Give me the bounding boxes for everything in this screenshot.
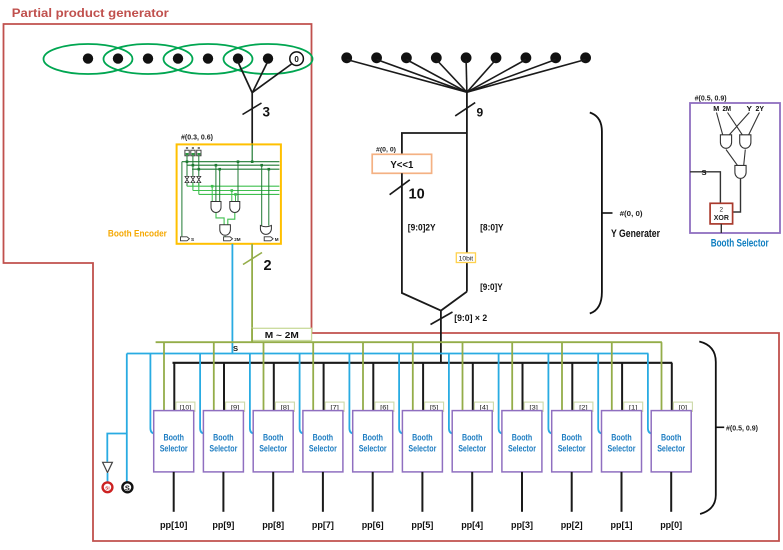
- wire: 9-bit Y bus: [466, 92, 468, 291]
- wire: black tap to selector [6]: [372, 363, 374, 411]
- inverter: [103, 462, 113, 472]
- pin labels M 2M Y 2Y: [713, 104, 764, 113]
- Booth Selector box [4]: [452, 411, 492, 472]
- svg-text:S!: S!: [105, 485, 110, 490]
- svg-text:Booth: Booth: [313, 432, 334, 443]
- selector AND gate right: [740, 135, 751, 149]
- wire: pp[5] output: [421, 472, 423, 512]
- fan wires to node 9: [347, 60, 586, 93]
- svg-text:10bit: 10bit: [459, 255, 474, 262]
- svg-text:pp[3]: pp[3]: [511, 520, 533, 531]
- bit tag [6]: [375, 402, 394, 411]
- svg-text:Booth: Booth: [561, 432, 582, 443]
- Booth Selector box [6]: [353, 411, 393, 472]
- encoder gate input drops: [216, 162, 269, 226]
- encoder gate1/gate2 output wires: [216, 213, 235, 225]
- 10bit tag box: [456, 253, 475, 263]
- wire: bit group to node: [238, 62, 292, 144]
- svg-text:pp[9]: pp[9]: [212, 520, 234, 531]
- svg-text:Selector: Selector: [458, 443, 486, 454]
- encoder S rail: [181, 162, 183, 237]
- svg-text:pp[4]: pp[4]: [461, 520, 483, 531]
- bus width slash 9: [455, 103, 475, 116]
- Booth Selector detail box U100: [690, 103, 780, 233]
- wire: S input: [690, 172, 720, 204]
- svg-text:pp[2]: pp[2]: [561, 520, 583, 531]
- svg-text:pp[0]: pp[0]: [660, 520, 682, 531]
- svg-text:Selector: Selector: [508, 443, 536, 454]
- Booth Selector box [5]: [402, 411, 442, 472]
- svg-text:Y Generater: Y Generater: [611, 228, 660, 240]
- encoder bright green rails: [187, 183, 279, 195]
- svg-text:pp[8]: pp[8]: [262, 520, 284, 531]
- wire: branch to Y<<1: [402, 133, 467, 154]
- bus width slash 2: [243, 253, 262, 265]
- svg-text:0: 0: [294, 55, 299, 64]
- bus width slash 3: [243, 103, 262, 115]
- encoder output gate 2M: [220, 225, 231, 236]
- wire: cyan tap to selector [4]: [449, 354, 454, 434]
- svg-text:10: 10: [409, 187, 425, 203]
- svg-text:Y<<1: Y<<1: [390, 159, 413, 171]
- encoder AND gate 1: [211, 202, 221, 213]
- Booth Selector box [0]: [651, 411, 691, 472]
- svg-text:XOR: XOR: [714, 215, 729, 222]
- svg-text:pp[6]: pp[6]: [362, 520, 384, 531]
- wire: black tap to selector [5]: [422, 363, 424, 411]
- multiplier bit dots (left group): [83, 53, 273, 63]
- Y<<1 shifter box: [372, 154, 431, 173]
- bit tag [7]: [325, 402, 344, 411]
- Booth Selector box [3]: [502, 411, 542, 472]
- wire: pp[1] output: [621, 472, 623, 512]
- encoder output flags S / 2M / M: [181, 237, 274, 241]
- wire: black tap to selector [2]: [571, 363, 573, 411]
- svg-text:Booth: Booth: [661, 432, 682, 443]
- svg-text:Booth: Booth: [263, 432, 284, 443]
- svg-text:Selector: Selector: [657, 443, 685, 454]
- bus width slash 10: [390, 180, 410, 195]
- wire: mux out to xor: [733, 179, 741, 212]
- wire: cyan tap to selector [9]: [200, 354, 205, 434]
- svg-text:2Y: 2Y: [756, 104, 765, 113]
- Booth Selector box [7]: [303, 411, 343, 472]
- wire: black tap to selector [4]: [472, 363, 474, 411]
- svg-text:Booth: Booth: [412, 432, 433, 443]
- wire: olive tap to selector [0]: [661, 342, 663, 410]
- wire: pp[0] output: [670, 472, 672, 512]
- svg-text:S: S: [191, 237, 194, 242]
- M ~ 2M tag box: [252, 328, 312, 340]
- svg-text:#(0.5, 0.9): #(0.5, 0.9): [695, 93, 728, 102]
- bit tag [10]: [176, 402, 195, 411]
- svg-text:Booth: Booth: [512, 432, 533, 443]
- svg-text:Booth Selector: Booth Selector: [711, 238, 769, 250]
- wire: black tap to selector [10]: [173, 363, 175, 411]
- wire: xor output: [720, 224, 722, 233]
- wire: cyan tap to selector [6]: [349, 354, 354, 434]
- wire: pp[3] output: [521, 472, 523, 512]
- wire: S (cyan) from encoder: [231, 244, 233, 354]
- wire: olive over M~2M box edge: [251, 328, 253, 342]
- selector mux wires: [726, 150, 745, 166]
- multiplicand bit dots: [341, 52, 591, 63]
- wire: olive tap to selector [4]: [462, 342, 464, 410]
- bit tag [1]: [624, 402, 643, 411]
- selector AND gate left: [720, 135, 731, 149]
- bus: Y/2Y (black): [173, 362, 673, 364]
- Booth Selector box [2]: [552, 411, 592, 472]
- bit tag [4]: [474, 402, 493, 411]
- wire: pp[8] output: [272, 472, 274, 512]
- wire: 2Y bus: [402, 173, 441, 310]
- XOR block: [710, 203, 733, 224]
- svg-text:2M: 2M: [723, 104, 732, 113]
- wire: black tap to selector [8]: [273, 363, 275, 411]
- wire: black tap to selector [0]: [671, 363, 673, 411]
- svg-text:Booth: Booth: [362, 432, 383, 443]
- wire: pp[10] output: [173, 472, 175, 512]
- wire: cyan tap to selector [3]: [499, 354, 504, 434]
- wire: cyan tap to selector [1]: [598, 354, 603, 434]
- svg-text:[8:0]Y: [8:0]Y: [480, 223, 504, 234]
- encoder input cells A B C: [185, 150, 201, 156]
- svg-text:Booth: Booth: [163, 432, 184, 443]
- wire: pp[2] output: [571, 472, 573, 512]
- bit tag [9]: [226, 402, 245, 411]
- svg-text:Y: Y: [747, 104, 753, 113]
- terminal S: [122, 482, 132, 492]
- wire: black tap to selector [7]: [323, 363, 325, 411]
- svg-text:S: S: [233, 344, 238, 353]
- selector merge gate: [735, 165, 746, 178]
- svg-text:pp[10]: pp[10]: [160, 520, 188, 531]
- svg-text:3: 3: [263, 105, 271, 120]
- wire: Y bus merge: [441, 292, 467, 363]
- bus: M~2M (olive): [156, 341, 662, 343]
- Booth Selector box [10]: [154, 411, 194, 472]
- svg-text:#(0.5, 0.9): #(0.5, 0.9): [726, 423, 759, 432]
- encoder input feed from bus 3: [251, 144, 253, 161]
- wire: pp[6] output: [372, 472, 374, 512]
- svg-text:Selector: Selector: [160, 443, 188, 454]
- Booth Encoder box: [177, 144, 281, 243]
- wire: olive tap to selector [2]: [561, 342, 563, 410]
- svg-text:M ~ 2M: M ~ 2M: [265, 330, 299, 340]
- svg-text:M: M: [275, 237, 279, 242]
- wire: olive tap to selector [6]: [362, 342, 364, 410]
- svg-text:Selector: Selector: [309, 443, 337, 454]
- booth grouping ellipses: [44, 44, 313, 74]
- wire: pp[4] output: [471, 472, 473, 512]
- svg-text:2: 2: [720, 207, 724, 214]
- wire: S down to terminals: [126, 354, 128, 482]
- terminal S-bar: [103, 482, 113, 492]
- svg-text:pp[7]: pp[7]: [312, 520, 334, 531]
- svg-text:[9:0]2Y: [9:0]2Y: [408, 223, 436, 234]
- svg-text:Selector: Selector: [259, 443, 287, 454]
- svg-text:pp[5]: pp[5]: [411, 520, 433, 531]
- svg-text:S: S: [702, 168, 707, 177]
- wire: cyan tap to selector [7]: [300, 354, 305, 434]
- svg-text:Selector: Selector: [209, 443, 237, 454]
- brace: Y Generater: [590, 113, 602, 314]
- svg-text:Booth: Booth: [213, 432, 234, 443]
- encoder junction dots: [186, 160, 270, 170]
- svg-text:[9:0] × 2: [9:0] × 2: [454, 313, 487, 324]
- wire: olive tap to selector [3]: [511, 342, 513, 410]
- svg-text:2M: 2M: [234, 237, 241, 242]
- svg-text:M: M: [713, 104, 719, 113]
- svg-text:Selector: Selector: [408, 443, 436, 454]
- svg-text:#(0, 0): #(0, 0): [620, 209, 644, 218]
- encoder cell drop wires: [187, 156, 199, 186]
- svg-text:2: 2: [264, 258, 272, 274]
- svg-text:Selector: Selector: [608, 443, 636, 454]
- wire: M~2M (olive) from encoder: [251, 244, 253, 342]
- bit tag [5]: [425, 402, 444, 411]
- wire: black tap to selector [1]: [621, 363, 623, 411]
- bit tag [0]: [673, 402, 692, 411]
- Booth Selector box [8]: [253, 411, 293, 472]
- wire: olive tap to selector [7]: [312, 342, 314, 410]
- bit tag [8]: [275, 402, 294, 411]
- svg-text:#(0.3, 0.6): #(0.3, 0.6): [181, 133, 214, 142]
- wire: cyan tap to selector [5]: [399, 354, 404, 434]
- Booth Selector box [9]: [203, 411, 243, 472]
- wire: cyan tap to selector [2]: [548, 354, 553, 434]
- svg-text:9: 9: [477, 106, 484, 120]
- svg-text:pp[1]: pp[1]: [611, 520, 633, 531]
- appended zero bit symbol: [290, 52, 304, 66]
- wire: olive tap to selector [1]: [611, 342, 613, 410]
- wire: olive tap to selector [5]: [412, 342, 414, 410]
- brace: selector row: [699, 342, 716, 515]
- svg-text:Partial product generator: Partial product generator: [12, 6, 169, 20]
- bus width slash [9:0] x 2: [431, 312, 453, 325]
- wire: cyan tap to selector [0]: [648, 354, 653, 434]
- wire: cyan tap to selector [10]: [150, 354, 155, 434]
- wire: black tap to selector [3]: [522, 363, 524, 411]
- selector input wires: [717, 113, 760, 135]
- encoder output gate M (xor): [260, 225, 271, 234]
- wire: olive tap to selector [10]: [163, 342, 165, 410]
- Booth Selector box [1]: [602, 411, 642, 472]
- svg-text:Selector: Selector: [558, 443, 586, 454]
- svg-text:Booth Encoder: Booth Encoder: [108, 229, 167, 240]
- wire: black tap to selector [9]: [223, 363, 225, 411]
- svg-text:[9:0]Y: [9:0]Y: [480, 282, 503, 293]
- wire: olive tap to selector [9]: [213, 342, 215, 410]
- svg-text:Selector: Selector: [359, 443, 387, 454]
- wire: pp[9] output: [222, 472, 224, 512]
- svg-text:#(0, 0): #(0, 0): [376, 147, 396, 154]
- wire: cyan tap to selector [8]: [250, 354, 255, 434]
- bit tag [2]: [574, 402, 593, 411]
- svg-text:Booth: Booth: [611, 432, 632, 443]
- svg-text:Booth: Booth: [462, 432, 483, 443]
- svg-text:S: S: [125, 483, 130, 492]
- wire: olive tap to selector [8]: [263, 342, 265, 410]
- wire: pp[7] output: [322, 472, 324, 512]
- encoder AND gate 2: [230, 202, 240, 213]
- bus: S (cyan): [127, 353, 649, 355]
- encoder dark green rails: [182, 162, 280, 170]
- encoder buffers: [185, 176, 201, 182]
- bit tag [3]: [524, 402, 543, 411]
